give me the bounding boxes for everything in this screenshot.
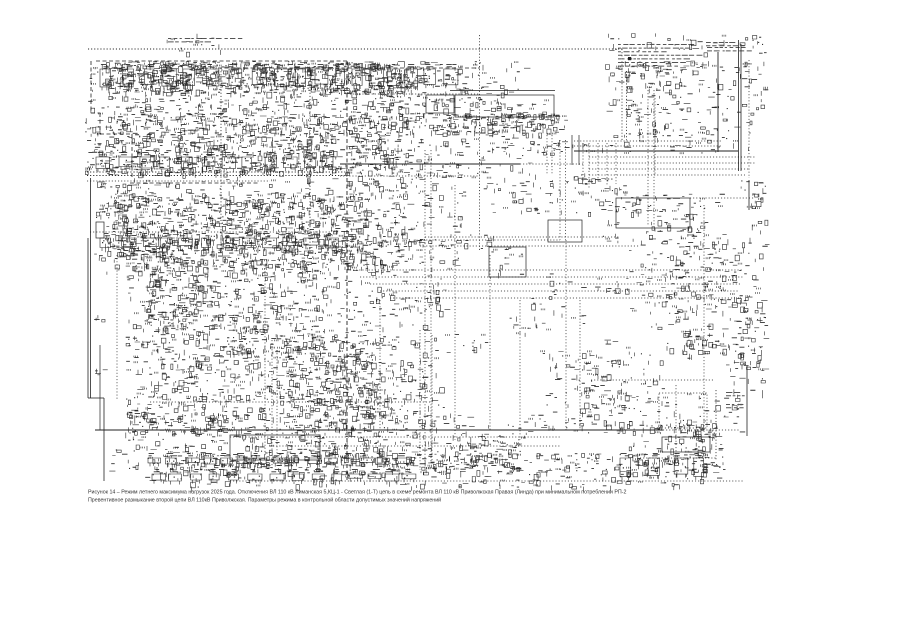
component cluster K87 (relays/switches, x325-425, y313) [328, 313, 430, 333]
component cluster K4 (relays/switches, x105-405, y61) [106, 61, 407, 78]
component cluster K60 (relays/switches, x665-725, y233) [669, 234, 727, 255]
component cluster K85 (relays/switches, x145-265, y313) [146, 313, 270, 336]
feeder dotted vertical x272 [271, 340, 273, 470]
bay outline box NE (x616,y198) [616, 198, 690, 228]
bus: dotted y380 SE [591, 379, 713, 381]
junction dot (x628,y58) [628, 57, 631, 60]
bus: dotted mid y246 [420, 245, 640, 247]
component cluster K131 (relays/switches, x665-725, y433) [667, 434, 723, 455]
feeder dotted vertical x654 [653, 90, 655, 225]
component cluster K36 (relays/switches, x85-405, y153) [85, 153, 410, 178]
component cluster K118 (relays/switches, x545-585, y393) [546, 393, 589, 417]
component cluster K139 (bottom fringe center) [425, 473, 606, 491]
feeder dotted vertical x616 [615, 143, 617, 184]
feeder dotted vertical x425 [424, 150, 426, 465]
svg-text:Превентивное размыкание второй: Превентивное размыкание второй цепи ВЛ 1… [88, 497, 441, 504]
text tag right of SE block a [726, 392, 745, 396]
component cluster K12 (relays/switches, x405-425, y73) [405, 73, 429, 95]
bus: dotted y437 [230, 436, 560, 438]
component cluster K26 (relays/switches, x85-105, y113) [85, 118, 103, 136]
bus: dotted tie y163 [589, 162, 755, 164]
bus: vertical feeder x221 [220, 68, 222, 252]
component cluster K19 (relays/switches, x105-385, y93) [108, 93, 387, 118]
component cluster K128 (relays/switches, x105-165, y433) [116, 436, 164, 452]
component cluster K70 (relays/switches, x145-205, y273) [146, 273, 208, 296]
component cluster K114 (relays/switches, x125-285, y393) [126, 393, 284, 418]
component cluster K137 (relays/switches, x705-725, y453) [705, 457, 725, 473]
wire: dashed area left edge 3 [131, 134, 133, 178]
component cluster K90 (relays/switches, x725-765, y313) [730, 313, 768, 335]
feeder dotted vertical x607 [606, 143, 608, 186]
wire: vertical x749 upper [748, 180, 750, 210]
component cluster K80 (relays/switches, x425-445, y293) [426, 295, 451, 317]
component cluster K1 (relays/switches, x165-225, y33) [167, 34, 221, 57]
component cluster K53 (relays/switches, x645-705, y213) [646, 214, 708, 234]
bus: dotted feeder y232 [90, 231, 330, 233]
component cluster K71 (relays/switches, x205-325, y273) [207, 273, 327, 297]
wire: dotted area right edge a (x622) [621, 49, 623, 142]
component cluster K8 (relays/switches, x625-705, y61) [625, 61, 707, 77]
feeder dotted vertical x589 [588, 143, 590, 188]
bus: dotted vertical x704 [703, 205, 705, 432]
component cluster K122 (relays/switches, x225-285, y413) [226, 413, 289, 436]
bus: mid dotted y270 [350, 269, 743, 271]
feeder dotted vertical x655 [654, 95, 656, 175]
svg-text:Рисунок 14 – Режим летнего мак: Рисунок 14 – Режим летнего максимума наг… [88, 490, 626, 496]
bus: dotted mid y237 [425, 236, 620, 238]
component cluster K113 (relays/switches, x725-765, y373) [730, 376, 765, 398]
component cluster K10 (relays/switches, x85-105, y73) [90, 73, 108, 92]
feeder dotted vertical x455 [454, 185, 456, 440]
wire: dashed area top edge [96, 60, 347, 62]
component cluster K99 (relays/switches, x385-405, y353) [386, 355, 407, 378]
wire: dashed step 2 [100, 133, 132, 135]
SE load box dotted (x659,y393) [659, 393, 707, 428]
bus: left margin line b [90, 178, 92, 398]
bus: mid dotted y298 [390, 297, 735, 299]
component cluster K41 (relays/switches, x425-625, y173) [432, 173, 627, 198]
component cluster K17 (relays/switches, x685-765, y73) [699, 74, 768, 96]
wire: 110kV vertical x741 [740, 44, 742, 171]
component cluster K84 (relays/switches, x125-145, y313) [129, 320, 146, 333]
component cluster K134 (relays/switches, x165-525, y453) [166, 453, 528, 479]
feeder dotted vertical x117 [116, 255, 118, 400]
component cluster K45 (relays/switches, x405-465, y193) [408, 194, 466, 217]
breaker box (x548,y220) [548, 220, 582, 242]
bus: dotted tie y141 [574, 140, 722, 142]
component cluster K30 (relays/switches, x85-105, y133) [87, 134, 103, 156]
annotation text top-right (O-10 OL-010) [707, 47, 752, 51]
bay outline box SE bottom (x662,y437) [662, 437, 710, 452]
feeder dotted vertical x566 [565, 240, 567, 430]
vertical label text (x120,y215) [121, 216, 132, 257]
feeder dotted vertical x583 [582, 143, 584, 185]
wire: SE box left edge x676 [675, 385, 677, 460]
component cluster K13 (relays/switches, x425-465, y73) [428, 74, 469, 96]
component cluster K66 (relays/switches, x625-665, y253) [626, 253, 662, 272]
bus: vertical trunk x347 [346, 61, 348, 480]
component cluster K102 (relays/switches, x585-605, y353) [585, 353, 602, 374]
component cluster K76 (relays/switches, x125-145, y293) [128, 293, 145, 314]
component cluster K25 (relays/switches, x685-765, y93) [687, 93, 765, 115]
component cluster K112 (relays/switches, x625-665, y373) [627, 375, 665, 395]
switchgear bay row B1 west (10kV feeders) [100, 64, 345, 90]
component cluster K43 (relays/switches, x105-365, y193) [105, 193, 370, 218]
component cluster K115 (relays/switches, x285-385, y393) [288, 393, 390, 417]
component cluster K95 (relays/switches, x665-685, y333) [667, 333, 689, 354]
component cluster K81 (relays/switches, x525-565, y293) [531, 294, 565, 316]
component cluster K65 (relays/switches, x405-465, y253) [409, 254, 461, 272]
component cluster K119 (relays/switches, x585-665, y393) [586, 395, 669, 414]
wire: top dotted boundary [88, 48, 622, 50]
feeder dotted vertical x490 [489, 255, 491, 430]
wire: dashed area left edge 1 [90, 61, 92, 113]
feeder dotted vertical x277 [276, 350, 278, 455]
bus: collector y164 dotted [520, 163, 584, 165]
component cluster K92 (relays/switches, x225-345, y333) [227, 334, 350, 359]
wire: 110kV vertical x738.5 [738, 40, 740, 171]
bus: vertical dotted x479.5 [479, 35, 481, 250]
component cluster K111 (relays/switches, x585-625, y373) [587, 373, 628, 394]
bus: dotted vertical x749b [748, 60, 750, 178]
component cluster K78 (relays/switches, x205-325, y293) [208, 293, 328, 318]
component cluster K61 (relays/switches, x725-765, y233) [728, 238, 770, 254]
wire: bundle edge x572 [571, 135, 573, 165]
wire: 110kV vertical x718 [717, 52, 719, 152]
switchgear bay row B3 (y235) [100, 233, 338, 251]
bus: left margin line a [87, 238, 89, 398]
tap ticks left bus y176 [97, 182, 106, 188]
component cluster K23 (relays/switches, x605-625, y93) [607, 99, 620, 111]
component cluster K100 (relays/switches, x405-445, y353) [408, 353, 439, 372]
component cluster K55 (relays/switches, x105-365, y233) [105, 233, 368, 258]
component cluster K136 (relays/switches, x625-705, y453) [627, 453, 710, 478]
bus: dotted y176 mid [340, 175, 480, 177]
capacitor bank contents [434, 99, 455, 115]
switchgear bay row B5 (y455 east) [620, 453, 704, 480]
relay cluster R5a (x548,y178) [550, 178, 613, 196]
component cluster K44 (relays/switches, x365-405, y193) [366, 193, 408, 216]
bus: mid dotted y284 [370, 283, 740, 285]
SE block cluster (x670,y420) [674, 424, 722, 443]
bay outline box center bottom (x230,y435) [230, 435, 320, 460]
feeder dotted vertical x431 [430, 150, 432, 462]
component cluster K72 (relays/switches, x325-445, y273) [328, 275, 447, 295]
bus: dotted tie y157 [589, 156, 755, 158]
component cluster K7 (relays/switches, x605-625, y61) [606, 65, 623, 77]
bus: dotted y94 center [350, 93, 480, 95]
feeder dotted vertical x565.5 [565, 140, 567, 240]
component cluster K38 (relays/switches, x445-545, y153) [445, 154, 532, 174]
component cluster K52 (relays/switches, x405-465, y213) [408, 215, 462, 232]
feeder dotted vertical x580 [579, 300, 581, 430]
feeder dotted vertical x432 [431, 335, 433, 465]
wire: dashed y183 [130, 182, 260, 184]
bus: long bottom tie y430 solid [95, 429, 663, 431]
component cluster K117 (relays/switches, x425-445, y393) [428, 398, 445, 412]
feeder dotted vertical x380 [379, 300, 381, 430]
wire: bottom drawing edge [230, 480, 743, 482]
feeder dotted vertical x547 [546, 135, 548, 175]
component cluster K77 (relays/switches, x145-205, y293) [145, 293, 209, 317]
component cluster K14 (relays/switches, x465-525, y73) [466, 75, 519, 95]
wire: collector y164 solid [340, 163, 520, 165]
component cluster K9 (relays/switches, x705-765, y61) [708, 61, 764, 73]
tap ticks left bus y315 [94, 315, 105, 322]
component cluster K6 (relays/switches, x425-525, y61) [427, 61, 530, 78]
switchgear bay row B1 east [352, 64, 458, 90]
component cluster K93 (relays/switches, x345-385, y333) [351, 335, 386, 355]
component cluster K69 (relays/switches, x125-145, y273) [127, 276, 138, 289]
bus: mid dotted y291 [380, 290, 738, 292]
component cluster K16 (relays/switches, x625-685, y73) [626, 73, 687, 95]
bus: vertical feeder x310 [309, 68, 311, 252]
component cluster K22 (relays/switches, x425-505, y93) [429, 93, 505, 111]
bus: dotted pair y172 [87, 171, 345, 173]
component cluster K59 (relays/switches, x625-665, y233) [629, 235, 668, 253]
component cluster K57 (relays/switches, x405-445, y233) [409, 239, 447, 254]
switchgear bay row B2 (y152) [96, 152, 333, 172]
wire: dashed step 1 [91, 112, 100, 114]
margin breaker box (x96,y222) [96, 222, 104, 238]
wire: dashed upper tie y68 [218, 67, 480, 69]
component cluster K54 (relays/switches, x745-765, y213) [752, 220, 768, 234]
component cluster K89 (relays/switches, x645-725, y313) [651, 313, 728, 337]
feeder dotted vertical x648 [647, 90, 649, 225]
relay cluster (x390,y295) [390, 296, 432, 313]
component cluster K83 (relays/switches, x665-765, y293) [665, 293, 767, 319]
component cluster K28 (relays/switches, x625-645, y113) [627, 115, 651, 139]
component cluster K104 (relays/switches, x725-765, y353) [726, 353, 769, 372]
feeder dotted vertical x420 [419, 330, 421, 470]
bus: long bottom tie y430 dotted [663, 429, 739, 431]
component cluster K20 (relays/switches, x385-405, y93) [385, 93, 409, 114]
component cluster K135 (relays/switches, x525-625, y453) [530, 453, 626, 477]
component cluster K101 (relays/switches, x545-585, y353) [550, 354, 586, 378]
annotation text NE block [618, 44, 702, 67]
feeder dotted vertical x520 [519, 300, 521, 440]
component cluster K64 (relays/switches, x385-405, y253) [386, 255, 408, 273]
component cluster K27 (relays/switches, x105-565, y113) [106, 113, 569, 138]
component cluster K50 (relays/switches, x105-365, y213) [106, 213, 369, 238]
component cluster K125 (relays/switches, x445-585, y413) [451, 414, 584, 437]
feeder dotted vertical x265 [264, 268, 266, 455]
component cluster K56 (relays/switches, x365-405, y233) [366, 233, 409, 255]
wire: left margin step [88, 397, 104, 399]
bus: dotted y402 [150, 401, 430, 403]
tap ticks left bus y368 [95, 369, 108, 375]
component cluster K62 (relays/switches, x105-125, y253) [107, 258, 120, 275]
component cluster K58 (relays/switches, x445-505, y233) [446, 234, 497, 254]
load cluster (x680,y338) [683, 338, 710, 360]
component cluster K39 (relays/switches, x105-345, y173) [105, 173, 338, 198]
component cluster K29 (relays/switches, x645-765, y113) [647, 113, 754, 135]
feeder dotted vertical x598 [597, 143, 599, 182]
component cluster K105 (relays/switches, x125-145, y373) [136, 375, 147, 395]
wire: SE block bottom y458 [640, 457, 716, 459]
transformer T1 bowtie symbol (x93,y204) [96, 205, 106, 220]
bus: mid dotted y277 [360, 276, 743, 278]
compensator block outline (x455,y95) [455, 95, 554, 117]
load cluster (x678,y412) [679, 416, 717, 434]
component cluster K67 (relays/switches, x665-725, y253) [666, 253, 729, 277]
annotation text NE right [706, 42, 745, 46]
component cluster K35 (relays/switches, x565-765, y133) [573, 134, 749, 155]
component cluster K130 (relays/switches, x625-665, y433) [629, 434, 667, 452]
component cluster K110 (relays/switches, x545-585, y373) [555, 379, 590, 396]
bus: dotted mid y240 [420, 239, 560, 241]
wire: margin box right edge x100 [99, 345, 101, 430]
component cluster K11 (relays/switches, x105-405, y73) [106, 73, 410, 98]
wire: dashed area left edge 2 [99, 113, 101, 134]
component cluster K15 (relays/switches, x605-625, y73) [609, 75, 624, 90]
component cluster K46 (relays/switches, x485-605, y193) [491, 193, 606, 216]
component cluster K32 (relays/switches, x385-425, y133) [386, 133, 424, 154]
component cluster K82 (relays/switches, x625-665, y293) [630, 293, 666, 314]
feeder dotted vertical x560 [559, 140, 561, 240]
bus: dotted tie y198 [690, 197, 755, 199]
component cluster K48 (relays/switches, x685-725, y193) [689, 194, 725, 209]
component cluster K49 (relays/switches, x745-765, y193) [747, 193, 763, 209]
switchgear bay row B4b (y469) [152, 469, 416, 485]
component cluster K106 (relays/switches, x145-285, y373) [149, 374, 284, 397]
component cluster K68 (relays/switches, x725-765, y253) [730, 254, 764, 273]
component cluster K2 (relays/switches, x605-765, y33) [608, 33, 766, 57]
component cluster K40 (relays/switches, x345-425, y173) [346, 173, 425, 196]
component cluster K127 (relays/switches, x665-745, y413) [666, 414, 745, 436]
feeder dotted vertical x552 [551, 135, 553, 175]
component cluster K51 (relays/switches, x365-405, y213) [366, 214, 407, 237]
component cluster K94 (relays/switches, x385-485, y333) [388, 334, 488, 353]
component cluster K133 (relays/switches, x145-165, y453) [148, 455, 169, 478]
tap ticks left bus y250 [94, 254, 105, 261]
wire: bundle edge x579 [578, 135, 580, 165]
title label (Schema) [168, 38, 242, 42]
component cluster K132 (relays/switches, x105-145, y453) [109, 454, 138, 471]
component cluster K123 (relays/switches, x285-385, y413) [286, 413, 388, 437]
relay cluster (x600,y340) [605, 340, 635, 366]
load box contents (x489,y247) [490, 248, 524, 279]
component cluster K91 (relays/switches, x125-225, y333) [126, 333, 227, 355]
component cluster K97 (relays/switches, x125-285, y353) [126, 353, 286, 378]
component cluster K33 (relays/switches, x425-485, y133) [429, 133, 478, 155]
component cluster K34 (relays/switches, x485-565, y133) [486, 133, 570, 155]
component cluster K140 (bottom fringe east) [606, 473, 722, 491]
component cluster K37 (relays/switches, x405-445, y153) [405, 153, 447, 177]
bus: dotted tie y169 [589, 168, 750, 170]
component cluster K108 (relays/switches, x385-425, y373) [389, 374, 428, 397]
component cluster K24 (relays/switches, x625-685, y93) [626, 94, 691, 115]
compensator block contents [459, 97, 548, 121]
wire: dotted area right edge b (x626.5) [626, 71, 628, 142]
component cluster K138 (bottom fringe west) [145, 473, 424, 492]
bus: dotted tie y175 [589, 174, 745, 176]
component cluster K107 (relays/switches, x285-385, y373) [285, 373, 385, 398]
component cluster K79 (relays/switches, x325-425, y293) [327, 294, 423, 314]
component cluster K98 (relays/switches, x285-385, y353) [285, 353, 385, 378]
component cluster K129 (relays/switches, x165-525, y433) [165, 433, 525, 458]
component cluster K88 (relays/switches, x505-585, y313) [510, 314, 587, 337]
bus: dotted y446 [270, 445, 560, 447]
wire: SE block right edge x716 [715, 390, 717, 460]
component cluster K75 (relays/switches, x725-765, y273) [729, 273, 761, 294]
component cluster K18 (relays/switches, x85-105, y93) [88, 99, 104, 114]
component cluster K126 (relays/switches, x585-665, y413) [587, 414, 662, 435]
wire: collector y90.5 [450, 90, 555, 92]
component cluster K5 (relays/switches, x405-425, y61) [407, 62, 430, 78]
capacitor bank box (x426,y95) [426, 95, 454, 113]
component cluster K124 (relays/switches, x385-445, y413) [388, 416, 450, 436]
component cluster K86 (relays/switches, x265-325, y313) [266, 313, 324, 333]
wire: left margin lower [103, 398, 105, 481]
component cluster K109 (relays/switches, x425-445, y373) [426, 373, 445, 394]
component cluster K121 (relays/switches, x125-225, y413) [126, 413, 228, 438]
component cluster K74 (relays/switches, x665-725, y273) [665, 275, 726, 298]
component cluster K73 (relays/switches, x545-665, y273) [547, 274, 666, 295]
component cluster K3 (relays/switches, x85-105, y61) [94, 65, 108, 73]
relay cluster (x540,y345) [541, 350, 592, 380]
component cluster K63 (relays/switches, x125-385, y253) [126, 253, 387, 278]
wire: vertical x747 lower [746, 365, 748, 436]
component cluster K21 (relays/switches, x405-425, y93) [406, 94, 427, 115]
switchgear bay row B4a (y453) [148, 453, 409, 469]
text tag right of SE block b [726, 404, 744, 408]
load box (x489,y247) [489, 247, 526, 277]
component cluster K103 (relays/switches, x605-665, y353) [607, 353, 663, 375]
component cluster K42 (relays/switches, x725-765, y173) [741, 180, 766, 194]
relay cluster (x595,y218) [603, 220, 620, 243]
wire: 110kV horizontal tie y151 [574, 150, 738, 152]
bus: dotted pair y175.5 [87, 175, 345, 177]
component cluster K120 (relays/switches, x665-745, y393) [666, 393, 742, 417]
component cluster K116 (relays/switches, x385-425, y393) [387, 394, 427, 417]
component cluster K47 (relays/switches, x605-685, y193) [605, 193, 684, 217]
bus: dotted y181 [87, 180, 270, 182]
bus: dotted tie y146 [574, 145, 722, 147]
component cluster K96 (relays/switches, x685-765, y333) [685, 333, 769, 357]
component cluster K31 (relays/switches, x105-385, y133) [106, 133, 387, 158]
